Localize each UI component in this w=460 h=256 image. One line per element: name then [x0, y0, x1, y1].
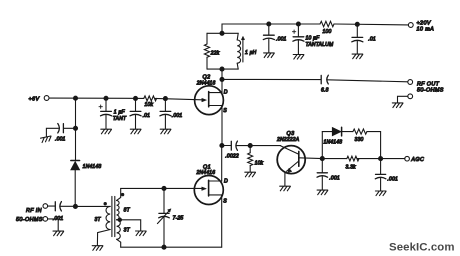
inductor 1uH (tank, vertical, adjustable) [237, 33, 240, 69]
transistor Q3 2N2222A [277, 146, 322, 186]
ground (RF OUT) [392, 103, 403, 108]
resistor 10k (Q3 base, vertical) [248, 146, 253, 172]
wire: collector node up [321, 132, 323, 159]
ground (tap) [136, 231, 147, 236]
wire: +6V to 10k [49, 97, 144, 99]
wire: to AGC terminal [381, 158, 405, 160]
svg-text:.01: .01 [143, 113, 151, 119]
svg-text:3T: 3T [124, 227, 131, 233]
terminal +20V [408, 23, 413, 28]
capacitor .001 (+6V bypass) [160, 99, 171, 129]
svg-text:.001: .001 [55, 137, 66, 143]
wire: RF IN ground leg [48, 219, 59, 231]
transformer core [112, 196, 115, 236]
wire: base node to Q3 [250, 145, 281, 147]
svg-text:S: S [223, 199, 227, 205]
terminal RF OUT ground [408, 94, 413, 99]
wire: +6V branch down [75, 98, 77, 160]
svg-text:AGC: AGC [410, 157, 424, 163]
svg-text:TANT: TANT [113, 116, 127, 122]
wire: branch node to 6.8 cap [222, 78, 321, 80]
ground (RF IN) [53, 231, 64, 236]
svg-text:7-25: 7-25 [173, 216, 184, 222]
capacitor 10uF tantalum [292, 24, 304, 54]
wire: bottom return [121, 246, 222, 248]
svg-text:8T: 8T [124, 207, 131, 213]
ground (rail .001) [264, 53, 275, 58]
ground (10k) [245, 172, 256, 177]
secondary winding 8T [117, 200, 119, 219]
svg-text:D: D [224, 89, 228, 95]
wire: tank bottom bar [207, 68, 238, 70]
svg-text:50-OHMS: 50-OHMS [417, 88, 444, 94]
secondary winding 3T [117, 220, 121, 240]
wire: Q2 source down to node [221, 106, 223, 146]
diode 1N4148 (vertical) [71, 161, 80, 207]
node: tank top [220, 31, 224, 35]
capacitor 1uF TANT [99, 98, 112, 128]
terminal AGC [405, 156, 410, 161]
svg-text:10k: 10k [145, 102, 154, 108]
ground (collector .001) [317, 190, 328, 195]
node: AGC junction [379, 157, 383, 161]
terminal RF IN ground [43, 217, 48, 222]
svg-text:10 µF: 10 µF [306, 36, 321, 42]
svg-text:22k: 22k [210, 51, 220, 57]
wire: tap to ground [117, 220, 141, 231]
node: secondary tap [118, 218, 121, 221]
node: trimmer bottom [162, 245, 166, 249]
ground (10uF) [293, 55, 304, 60]
svg-text:2N4416: 2N4416 [196, 170, 216, 176]
svg-text:+6V: +6V [29, 96, 41, 102]
wire: primary bottom lead [97, 230, 110, 246]
wire: junction to transformer [75, 205, 110, 207]
svg-text:.001: .001 [329, 176, 340, 182]
svg-text:SeekIC.com: SeekIC.com [389, 242, 455, 254]
primary winding 3T [106, 206, 110, 229]
capacitor .001 (RF in coupling) [48, 202, 76, 211]
capacitor .0022 (coupling) [231, 141, 250, 150]
svg-text:D: D [224, 178, 228, 184]
capacitor .001 (Q3 collector) [317, 159, 328, 190]
capacitor .01 (+6V bypass) [130, 98, 141, 128]
ground (AGC .001) [375, 191, 386, 196]
node: 1uF junction [104, 96, 108, 100]
terminal +6V [44, 96, 49, 101]
wire: trimmer top lead [163, 188, 165, 213]
node: .01 junction [134, 96, 138, 100]
node: rail junction 2 [296, 22, 300, 26]
resistor 10k (series, +6V line) [144, 96, 157, 101]
node: .001 left branch [74, 126, 78, 130]
capacitor .001 (AGC) [375, 159, 386, 191]
wire: tank top to R100 [222, 24, 320, 33]
ground (1uF) [101, 129, 112, 134]
node: Q3 base node [248, 144, 252, 148]
op Q2 2N4416 JFET [195, 86, 224, 115]
node: .001 junction [163, 97, 167, 101]
ground (rail .01) [352, 54, 363, 59]
svg-text:RF IN: RF IN [26, 208, 42, 214]
ground (primary) [92, 246, 103, 251]
resistor 3.3k [322, 156, 380, 161]
svg-text:2N4416: 2N4416 [196, 81, 216, 87]
phase dot (primary) [104, 202, 107, 205]
svg-text:10k: 10k [255, 161, 264, 167]
svg-text:.0022: .0022 [225, 154, 239, 160]
svg-text:.001: .001 [172, 113, 183, 119]
wire: secondary top lead [117, 188, 121, 200]
wire: Q1 source leg [221, 195, 223, 247]
wire: RF OUT ground leg [398, 96, 408, 102]
capacitor .01 (rail bypass) [352, 24, 363, 53]
svg-text:330: 330 [355, 137, 364, 143]
wire: secondary bottom lead [117, 239, 121, 247]
svg-text:1N4148: 1N4148 [83, 164, 102, 170]
wire: gate line [121, 187, 202, 189]
ground (Q3 emitter) [280, 186, 291, 191]
svg-text:10 mA: 10 mA [417, 27, 435, 33]
wire: tank bottom to Q2 drain [221, 69, 223, 93]
svg-text:TANTALUM: TANTALUM [306, 42, 334, 48]
wire: R100 to +20V terminal [334, 23, 408, 26]
svg-text:1 µH: 1 µH [245, 50, 257, 56]
adjustment arrow for 1uH [241, 36, 244, 62]
svg-text:6.8: 6.8 [321, 88, 329, 94]
node: rail junction 3 [355, 22, 359, 26]
node: +6V branch [74, 96, 78, 100]
capacitor 6.8 (coupling) [321, 75, 408, 84]
resistor 330 [353, 129, 367, 134]
node: interstage junction [220, 144, 224, 148]
capacitor .001 (rail bypass) [263, 24, 274, 52]
node: trimmer top [162, 186, 166, 190]
node: RF out branch [220, 77, 224, 81]
svg-text:Q3: Q3 [287, 131, 295, 137]
phase dot (secondary) [121, 193, 124, 196]
svg-text:S: S [223, 108, 227, 114]
svg-text:3T: 3T [95, 217, 102, 223]
ground (.01) [130, 129, 141, 134]
svg-text:RF OUT: RF OUT [417, 81, 440, 87]
svg-text:2N2222A: 2N2222A [276, 137, 300, 143]
diode 1N4148 (AGC, horizontal) [322, 127, 353, 136]
resistor 22k (tank, vertical) [204, 33, 209, 69]
wire: node to .0022 [222, 145, 231, 147]
svg-text:.01: .01 [368, 37, 376, 43]
svg-text:1N4148: 1N4148 [324, 139, 343, 145]
wire: 330 to right corner, down [367, 132, 381, 159]
node: Q3 collector junction [320, 157, 324, 161]
capacitor 7-25 trimmer [157, 209, 171, 247]
svg-text:.001: .001 [276, 37, 287, 43]
op Q1 2N4416 JFET [194, 176, 223, 205]
terminal RF OUT [408, 80, 413, 85]
wire: tank top bar [207, 32, 238, 34]
resistor 100 (series, top rail) [320, 21, 334, 26]
ground (left .001, tilted) [41, 136, 52, 143]
wire: Q1 drain up to node [221, 146, 223, 182]
svg-text:1 µF: 1 µF [114, 110, 126, 116]
node: tank bottom [220, 67, 224, 71]
ground (.001) [160, 129, 171, 134]
node: rail junction 1 [267, 22, 271, 26]
svg-text:3.3k: 3.3k [346, 164, 357, 170]
svg-text:50-OHMS: 50-OHMS [16, 217, 43, 223]
svg-text:100: 100 [323, 29, 332, 35]
wire: 10k to Q2 gate [155, 98, 202, 99]
capacitor .001 (left, to ground) [46, 124, 75, 137]
terminal RF IN [43, 204, 48, 209]
svg-text:.001: .001 [387, 177, 398, 183]
node: RF in junction [73, 204, 77, 208]
